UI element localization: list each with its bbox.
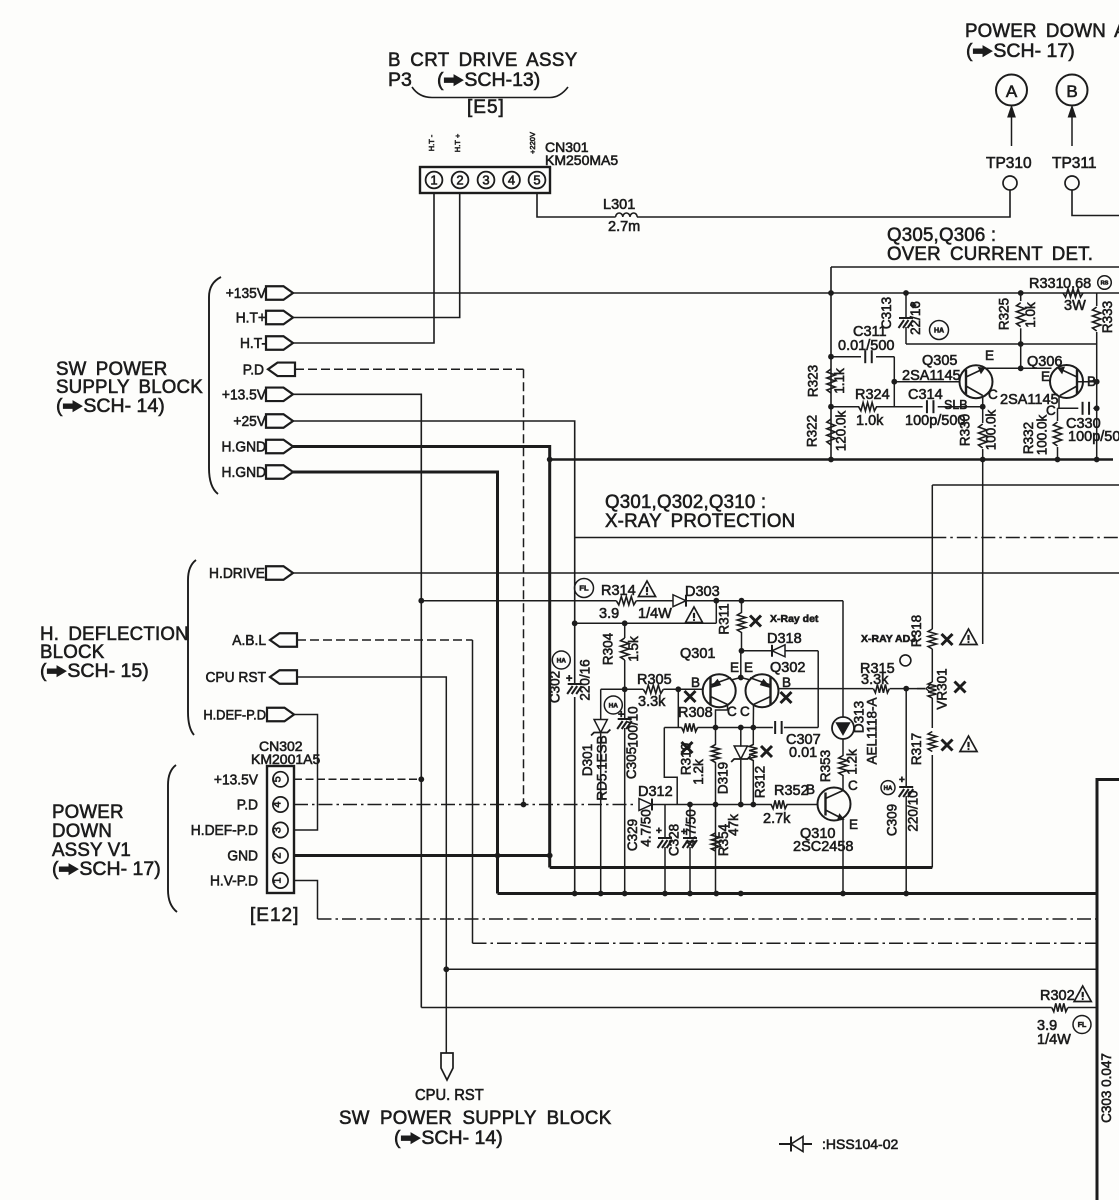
wire emitter bus1 [550,866,933,869]
svg-text:0.01: 0.01 [789,745,817,761]
x mark VR301 [955,682,966,693]
wire ground bus2 [498,892,1098,895]
svg-text:R318: R318 [909,615,924,647]
svg-text:+: + [618,709,624,721]
svg-text:TP310: TP310 [986,155,1032,172]
resistor R302 [1052,1003,1068,1011]
svg-text:(: ( [40,660,47,682]
svg-text:C302: C302 [548,671,563,703]
svg-text:SW POWER SUPPLY BLOCK: SW POWER SUPPLY BLOCK [339,1108,611,1129]
capacitor C313 vertical [905,293,907,318]
wire GND pin2 to bus [294,854,550,857]
x mark below Q302 B [781,692,792,703]
svg-text:R311: R311 [717,603,732,634]
svg-text:R330: R330 [958,414,973,446]
svg-text:(: ( [56,395,63,417]
resistor R354 [711,833,719,851]
CN302 pin 1 H.V-P.D [273,873,288,888]
svg-text:H.V-P.D: H.V-P.D [210,873,258,890]
svg-text:D303: D303 [685,584,720,600]
svg-text:D318: D318 [767,631,802,647]
wire +13.5V bottom tap to R302 [421,1007,1051,1009]
svg-text:0.01/500: 0.01/500 [838,338,894,354]
svg-text:X-RAY PROTECTION: X-RAY PROTECTION [605,511,795,532]
wire H.DEF-P.D to CN302 pin3 [294,715,318,831]
testpoint TP310 [1003,176,1017,190]
resistor R352 [771,800,787,808]
svg-text:220/16: 220/16 [578,659,593,700]
CN302 pin 3 H.DEF-P.D [273,822,288,837]
svg-text:2SC2458: 2SC2458 [793,839,853,855]
brace H. DEFLECTION BLOCK [188,560,196,735]
svg-text:KM250MA5: KM250MA5 [545,152,618,168]
svg-text:GND: GND [227,848,258,865]
svg-text:E: E [1041,369,1050,384]
brace SW POWER SUPPLY BLOCK [209,277,221,494]
warning triangle R318 [960,629,977,644]
svg-text:C: C [988,387,998,402]
svg-text:SLB: SLB [944,398,968,412]
svg-text:P.D: P.D [237,797,258,814]
X-ray label box bottom [575,537,933,539]
svg-text:RD5.1ESB: RD5.1ESB [595,735,610,800]
svg-text:3W: 3W [1064,298,1086,314]
wire P.D horizontal dashed [295,368,524,370]
arrow to node A [1011,112,1013,146]
svg-text:2.7m: 2.7m [608,219,640,235]
svg-text:1/4W: 1/4W [1037,1032,1071,1048]
signal arrow H.DEF-P.D [267,708,294,722]
svg-text:POWER DOWN A: POWER DOWN A [965,21,1119,42]
resistor R305 [643,685,663,693]
svg-text:[E12]: [E12] [250,905,299,926]
svg-text:SCH- 15): SCH- 15) [67,660,148,682]
svg-text:1.2k: 1.2k [845,749,860,775]
wire P.D row pin4 dash-dot [294,804,633,806]
svg-text:H.DRIVE: H.DRIVE [209,566,265,583]
wire R308 branch [664,689,681,727]
warning triangle R302 [1074,986,1091,1001]
svg-text:C314: C314 [908,387,943,403]
wire over-current ground bus [550,458,1113,460]
svg-text:AEL1118-A: AEL1118-A [865,697,880,764]
flag HA C305 [604,696,622,714]
testpoint TP311 [1065,176,1079,190]
resistor R324 row [831,406,859,408]
svg-text:B: B [806,782,815,797]
capacitor C302 [568,683,582,685]
x mark near D319 [761,746,772,757]
svg-text:4: 4 [272,801,284,807]
wire Q302 collector [752,705,754,728]
svg-text:100p/50: 100p/50 [1068,429,1119,445]
svg-text:R304: R304 [601,632,616,665]
svg-text:0.68: 0.68 [1063,276,1091,292]
screw adjust symbol [900,655,911,666]
wire Q310 collector [842,788,844,791]
flag HA C302 [552,651,570,669]
svg-text:(: ( [966,40,973,62]
svg-text:Q302: Q302 [770,660,805,676]
svg-text:H.T -: H.T - [427,134,436,151]
wire H.DRIVE [293,572,1119,574]
resistor R308 [682,723,698,731]
transistor Q310 [818,788,851,821]
flag FL R302 [1073,1016,1091,1034]
resistor R353 [839,756,847,776]
svg-text:R333: R333 [1100,301,1115,333]
brace POWER DOWN ASSY V1 [168,765,177,912]
svg-text:B: B [1066,82,1077,101]
CN301 pin 2 [452,172,469,189]
flag HA C309 [881,781,895,795]
wire Q305 emitter row [984,367,1052,369]
svg-text:H.T-: H.T- [240,336,266,353]
svg-text:100/10: 100/10 [626,706,641,747]
svg-text:R305: R305 [637,672,672,688]
svg-text:C309: C309 [885,804,900,836]
x mark below Q301 B [685,691,696,702]
svg-text:SCH- 14): SCH- 14) [83,395,164,417]
svg-text:100.0k: 100.0k [1035,414,1050,455]
svg-text:E: E [849,817,858,832]
capacitor C314 [926,400,928,413]
signal arrow H.T- [266,336,293,350]
svg-text:H.T+: H.T+ [236,310,266,327]
svg-text:D319: D319 [716,762,731,794]
wire A.B.L bottom row dash-dot [473,942,1098,944]
wire H.V-P.D row dash-dot [318,918,1098,920]
svg-text:2SA1145: 2SA1145 [902,368,961,384]
signal arrow +135V [266,286,293,300]
diode D312 [639,799,652,811]
transistor Q301 [703,674,736,707]
svg-text:C: C [848,778,858,793]
wire C311 to base vertical [893,357,895,407]
svg-text:4.7/50: 4.7/50 [639,809,654,847]
signal arrow H.GND [266,440,293,454]
svg-text:P.D: P.D [243,362,264,379]
node B [1057,75,1088,106]
signal arrow A.B.L [270,633,297,647]
capacitor C329 [664,805,666,839]
wire H.V-P.D from pin1 [294,881,318,920]
resistor R332 [1057,408,1059,421]
svg-text:2SA1145: 2SA1145 [1000,392,1059,408]
svg-text:+135V: +135V [226,286,267,303]
resistor R333 [1096,293,1098,306]
flag HA over-current [930,321,949,340]
svg-text:+13.5V: +13.5V [222,387,266,404]
wire +135V rail [293,292,1119,294]
svg-text:H.DEF-P.D: H.DEF-P.D [191,823,258,840]
resistor R312 [752,728,754,746]
svg-text:C: C [727,704,737,719]
svg-text:FL: FL [1078,1022,1087,1029]
wire over-current top rail [831,266,1119,268]
wire VR column top corner to edge [932,484,1119,486]
svg-text:+: + [681,827,687,838]
svg-text:1.2k: 1.2k [691,759,706,785]
wire CN301 pin5 to L301 to TP310 [537,193,616,217]
svg-text:22/16: 22/16 [908,301,923,335]
row 344 [906,343,1097,345]
svg-text:3: 3 [482,173,489,188]
wire Q305 base [894,381,959,383]
wire Q306 base [1077,381,1097,383]
svg-text:C305: C305 [624,747,639,779]
transistor Q305 [960,365,993,398]
resistor R322 [827,419,835,445]
svg-text:OVER CURRENT DET.: OVER CURRENT DET. [887,244,1093,265]
wire P.D vertical dashed [523,369,525,804]
svg-text:C313: C313 [879,297,894,329]
wire Q310 emitter to bus [842,819,844,894]
capacitor C309 [905,689,907,787]
svg-text:SCH-13): SCH-13) [464,69,540,91]
svg-text:D301: D301 [580,744,595,776]
signal arrow CPU RST [270,670,297,684]
overbrace E5 [412,87,568,98]
svg-text:H.GND: H.GND [222,465,266,482]
potentiometer VR301 [928,682,936,698]
wire D313 branch vertical [842,601,844,717]
svg-text:Q305: Q305 [922,353,957,369]
svg-text:HA: HA [609,702,619,709]
wire CN302 pin5 dashed [294,778,421,780]
svg-text::HSS104-02: :HSS104-02 [822,1136,898,1152]
svg-text:47k: 47k [726,814,741,836]
svg-text:1.1k: 1.1k [832,368,847,394]
capacitor C328 [689,805,691,839]
svg-text:SCH- 14): SCH- 14) [421,1127,502,1149]
svg-text:(: ( [394,1127,401,1149]
resistor R314 [616,597,636,605]
svg-text:KM2001A5: KM2001A5 [251,751,320,767]
capacitor C311 row [831,356,861,358]
resistor R323 [827,369,835,393]
resistor R311 [741,601,743,613]
svg-text:[E5]: [E5] [467,97,505,118]
svg-text:VR301: VR301 [935,668,950,709]
svg-text:R308: R308 [678,705,713,721]
svg-text:2.7k: 2.7k [763,811,791,827]
svg-text:Q301: Q301 [680,646,715,662]
warning triangle R317 [960,736,977,751]
svg-text:R314: R314 [601,583,636,599]
svg-text:Q306: Q306 [1027,354,1062,370]
svg-text:2: 2 [456,173,463,188]
node A [996,75,1027,106]
wire H.GND 1 thick [293,447,550,868]
resistor R325 [1020,293,1022,301]
transistor Q306 [1050,365,1083,398]
svg-text:B: B [782,675,791,690]
CN301 pin 1 [426,172,443,189]
svg-text:HA: HA [557,657,567,664]
svg-text:B: B [691,675,700,690]
svg-text:100p/500: 100p/500 [905,413,965,429]
wire Q301 collector [716,705,728,728]
signal arrow H.GND [266,465,293,479]
svg-text:R324: R324 [855,387,890,403]
legend diode HSS104-02 [779,1137,791,1152]
signal arrow +25V [266,414,293,428]
svg-text:D312: D312 [638,784,673,800]
svg-text:3.3k: 3.3k [861,672,889,688]
flag FL xray [575,579,594,598]
svg-text:X-Ray det: X-Ray det [770,613,819,625]
wire X-ray top feed from +13.5V [421,600,616,602]
svg-text:+: + [566,673,572,685]
svg-text:E: E [985,348,994,363]
svg-text:CPU. RST: CPU. RST [415,1087,484,1104]
connector CN302 body [267,766,294,893]
signal arrow H.DRIVE [266,566,293,580]
resistor R331 in rail [1063,289,1083,297]
svg-text:3.3k: 3.3k [638,694,666,710]
wire over-current left rail [830,267,832,460]
svg-text:(: ( [52,858,59,880]
svg-text:TP311: TP311 [1052,155,1097,172]
svg-text:R317: R317 [909,733,924,765]
wire A.B.L [297,639,473,641]
wire VR301 column [931,485,933,629]
wire Q306 collector row with C330 [1058,396,1079,409]
wire +13.5V vertical [293,394,421,1007]
svg-text:R302: R302 [1040,988,1075,1004]
svg-text:B CRT DRIVE ASSY: B CRT DRIVE ASSY [388,50,578,71]
svg-text:3.9: 3.9 [599,606,619,622]
x mark R318 [942,634,953,645]
svg-text:R312: R312 [753,766,768,798]
CN302 pin 2 GND [273,848,288,863]
svg-text:HA: HA [884,786,893,792]
flag RS [1098,276,1112,290]
signal arrow P.D [268,363,295,377]
signal arrow H.T+ [266,311,293,325]
wire +25V vertical [292,421,575,683]
X-ray label box right dash-dot [932,537,1119,539]
zener diode D301 [600,689,602,720]
svg-text:R353: R353 [818,750,833,782]
wire +25V tap to R304/D303 [575,601,717,624]
capacitor C305 [624,689,626,719]
wire CPU RST [297,677,446,1053]
svg-text:H.DEF-P.D: H.DEF-P.D [203,707,266,723]
transistor Q302 [746,674,779,707]
svg-text:A: A [1006,82,1018,101]
resistor R310 [715,728,717,746]
svg-text:1.0k: 1.0k [856,413,884,429]
svg-text:A.B.L: A.B.L [232,633,266,650]
wire R315 row [778,688,873,690]
svg-text:5: 5 [533,173,540,188]
resistor R318 [928,629,936,649]
CN301 pin 3 [478,172,495,189]
resistor R330 [982,396,984,424]
svg-text:FL: FL [579,584,589,593]
wire staircase R308 to P.D row [664,728,677,805]
svg-text:1/4W: 1/4W [638,606,672,622]
svg-text:120.0k: 120.0k [834,410,849,451]
svg-text:R331: R331 [1029,276,1064,292]
wire H.T+ to CN301 pin2 [293,193,460,318]
x mark near R311 [750,616,761,627]
svg-text:1: 1 [272,877,284,883]
svg-text:1.5k: 1.5k [626,636,641,662]
CN301 pin 4 [503,172,520,189]
connector CN301 body [420,167,550,193]
svg-text:H.GND: H.GND [222,439,266,456]
resistor R304 [624,623,626,638]
svg-text:2: 2 [272,852,284,858]
signal arrow +13.5V [266,388,293,402]
x mark below R308 [682,742,693,753]
svg-text:5: 5 [272,776,284,782]
svg-text:E: E [744,660,753,675]
wire D318 right leg down to C307 [817,651,819,728]
CN302 pin 4 P.D [273,797,288,812]
svg-text:1: 1 [430,173,437,188]
svg-text:(: ( [437,69,444,91]
wire H.T- to CN301 pin1 [293,193,434,343]
wire base row Q301 [601,688,644,690]
svg-text:R322: R322 [805,415,820,447]
wire H.GND 2 thick [293,472,498,894]
CN301 pin 5 [529,172,546,189]
svg-text:RS: RS [1101,281,1109,287]
svg-text:R323: R323 [806,365,821,397]
svg-text:CPU RST: CPU RST [205,670,266,687]
zener diode D319 [740,728,742,747]
svg-text:3: 3 [272,827,284,833]
svg-text:100.0k: 100.0k [984,409,999,450]
thick wire right edge corner [1097,780,1119,1200]
inductor L301 [616,213,638,217]
svg-text:+25V: +25V [233,414,266,431]
wire CPU RST tap row [446,968,1097,970]
svg-text:220/10: 220/10 [906,790,921,831]
svg-text:SCH- 17): SCH- 17) [993,40,1074,62]
resistor R315 [873,684,889,692]
svg-text:R325: R325 [997,298,1012,330]
wire TP311 to edge [1072,190,1119,216]
svg-text:C328: C328 [667,824,682,856]
svg-text:+: + [899,775,905,786]
capacitor C307 row [753,727,773,729]
arrow to node B [1071,112,1073,146]
svg-text:C303 0.047: C303 0.047 [1099,1053,1114,1123]
svg-text:+220V: +220V [528,132,537,154]
svg-text:1.0k: 1.0k [1023,302,1038,328]
x mark R317 [942,740,953,751]
svg-text:4: 4 [508,173,515,188]
svg-text:P3: P3 [388,69,412,91]
CN302 pin 5 +13.5V [273,772,288,787]
svg-text:HA: HA [934,328,944,335]
svg-text:+13.5V: +13.5V [214,772,258,789]
wire emitters junction [740,651,742,678]
resistor R317 [928,732,936,752]
symbol CPU RST down arrow [441,1053,453,1080]
svg-text:E: E [730,660,739,675]
warning triangle below D303 [685,607,702,622]
svg-text:H.T +: H.T + [453,133,462,152]
wire P.D row through D312 to Q310 base [653,804,772,806]
diode D313 surge absorber [832,717,854,739]
svg-text:L301: L301 [603,197,635,213]
